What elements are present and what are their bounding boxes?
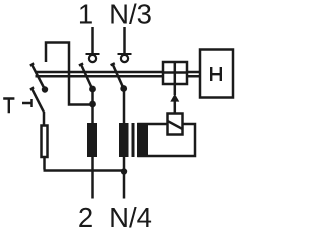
test circuit hook wire bbox=[46, 43, 93, 105]
trip bar (double line) right section to H box bbox=[188, 72, 200, 76]
CT core bar bbox=[132, 123, 135, 157]
actuator H box bbox=[200, 50, 233, 98]
junction dot test branch bbox=[89, 101, 96, 108]
contact tick pole 1 bbox=[79, 64, 83, 66]
junction dot test return on N bbox=[121, 168, 127, 174]
junction dot pole 1 pivot bbox=[89, 86, 96, 93]
wire relay to mechanism bbox=[174, 85, 177, 95]
test switch upper lever bbox=[32, 65, 45, 90]
wire resistor down bbox=[43, 157, 46, 170]
test button lever bbox=[32, 89, 44, 113]
trip mechanism cross horizontal bbox=[163, 71, 187, 74]
test button actuator bar bbox=[30, 99, 33, 107]
switch contact pole 1 (lever) bbox=[81, 65, 92, 89]
wire arrow to relay bbox=[174, 101, 177, 113]
relay secondary winding bar bbox=[137, 123, 148, 157]
label H bbox=[211, 67, 221, 81]
CT primary winding bar pole 1 bbox=[87, 123, 97, 157]
wire pole 1 down bbox=[91, 89, 94, 124]
wire terminal N/3 lead bbox=[123, 27, 126, 53]
terminal N/3 clamp bar bbox=[118, 53, 132, 55]
junction dot pole N pivot bbox=[120, 85, 127, 92]
trip bar (double line) left section bbox=[36, 72, 163, 76]
trip mechanism cross vertical bbox=[174, 62, 177, 84]
terminal N/3 circle bbox=[121, 55, 128, 62]
label T (test button) bbox=[3, 99, 14, 114]
contact tick pole N bbox=[111, 63, 115, 65]
wire pole N to terminal N/4 bbox=[123, 157, 126, 199]
svg-text:1: 1 bbox=[78, 0, 93, 30]
resistor R (test) bbox=[42, 126, 48, 158]
trip relay diagonal bbox=[167, 121, 183, 130]
svg-text:N/4: N/4 bbox=[109, 202, 152, 231]
wire test return horizontal bbox=[44, 169, 125, 172]
svg-text:2: 2 bbox=[78, 202, 93, 231]
wire pole N down bbox=[123, 89, 126, 125]
actuation arrow bbox=[170, 94, 179, 102]
contact tick test button lever bbox=[30, 87, 34, 89]
wire terminal 1 lead bbox=[91, 27, 94, 53]
trip relay box bbox=[168, 114, 183, 135]
wire pole 1 to terminal 2 bbox=[91, 157, 94, 199]
contact tick upper test lever bbox=[30, 63, 34, 65]
switch contact pole N (lever) bbox=[113, 64, 124, 88]
junction dot test levers bbox=[42, 86, 48, 92]
CT primary winding bar pole N bbox=[119, 123, 129, 157]
relay assembly outer box bbox=[139, 124, 196, 156]
svg-text:N/3: N/3 bbox=[109, 0, 152, 30]
test button actuator line bbox=[22, 102, 31, 105]
terminal 1 clamp bar bbox=[86, 53, 100, 55]
terminal 1 circle bbox=[89, 55, 96, 62]
trip mechanism box (crossed) bbox=[163, 62, 187, 84]
wire test lever to resistor bbox=[43, 112, 46, 125]
